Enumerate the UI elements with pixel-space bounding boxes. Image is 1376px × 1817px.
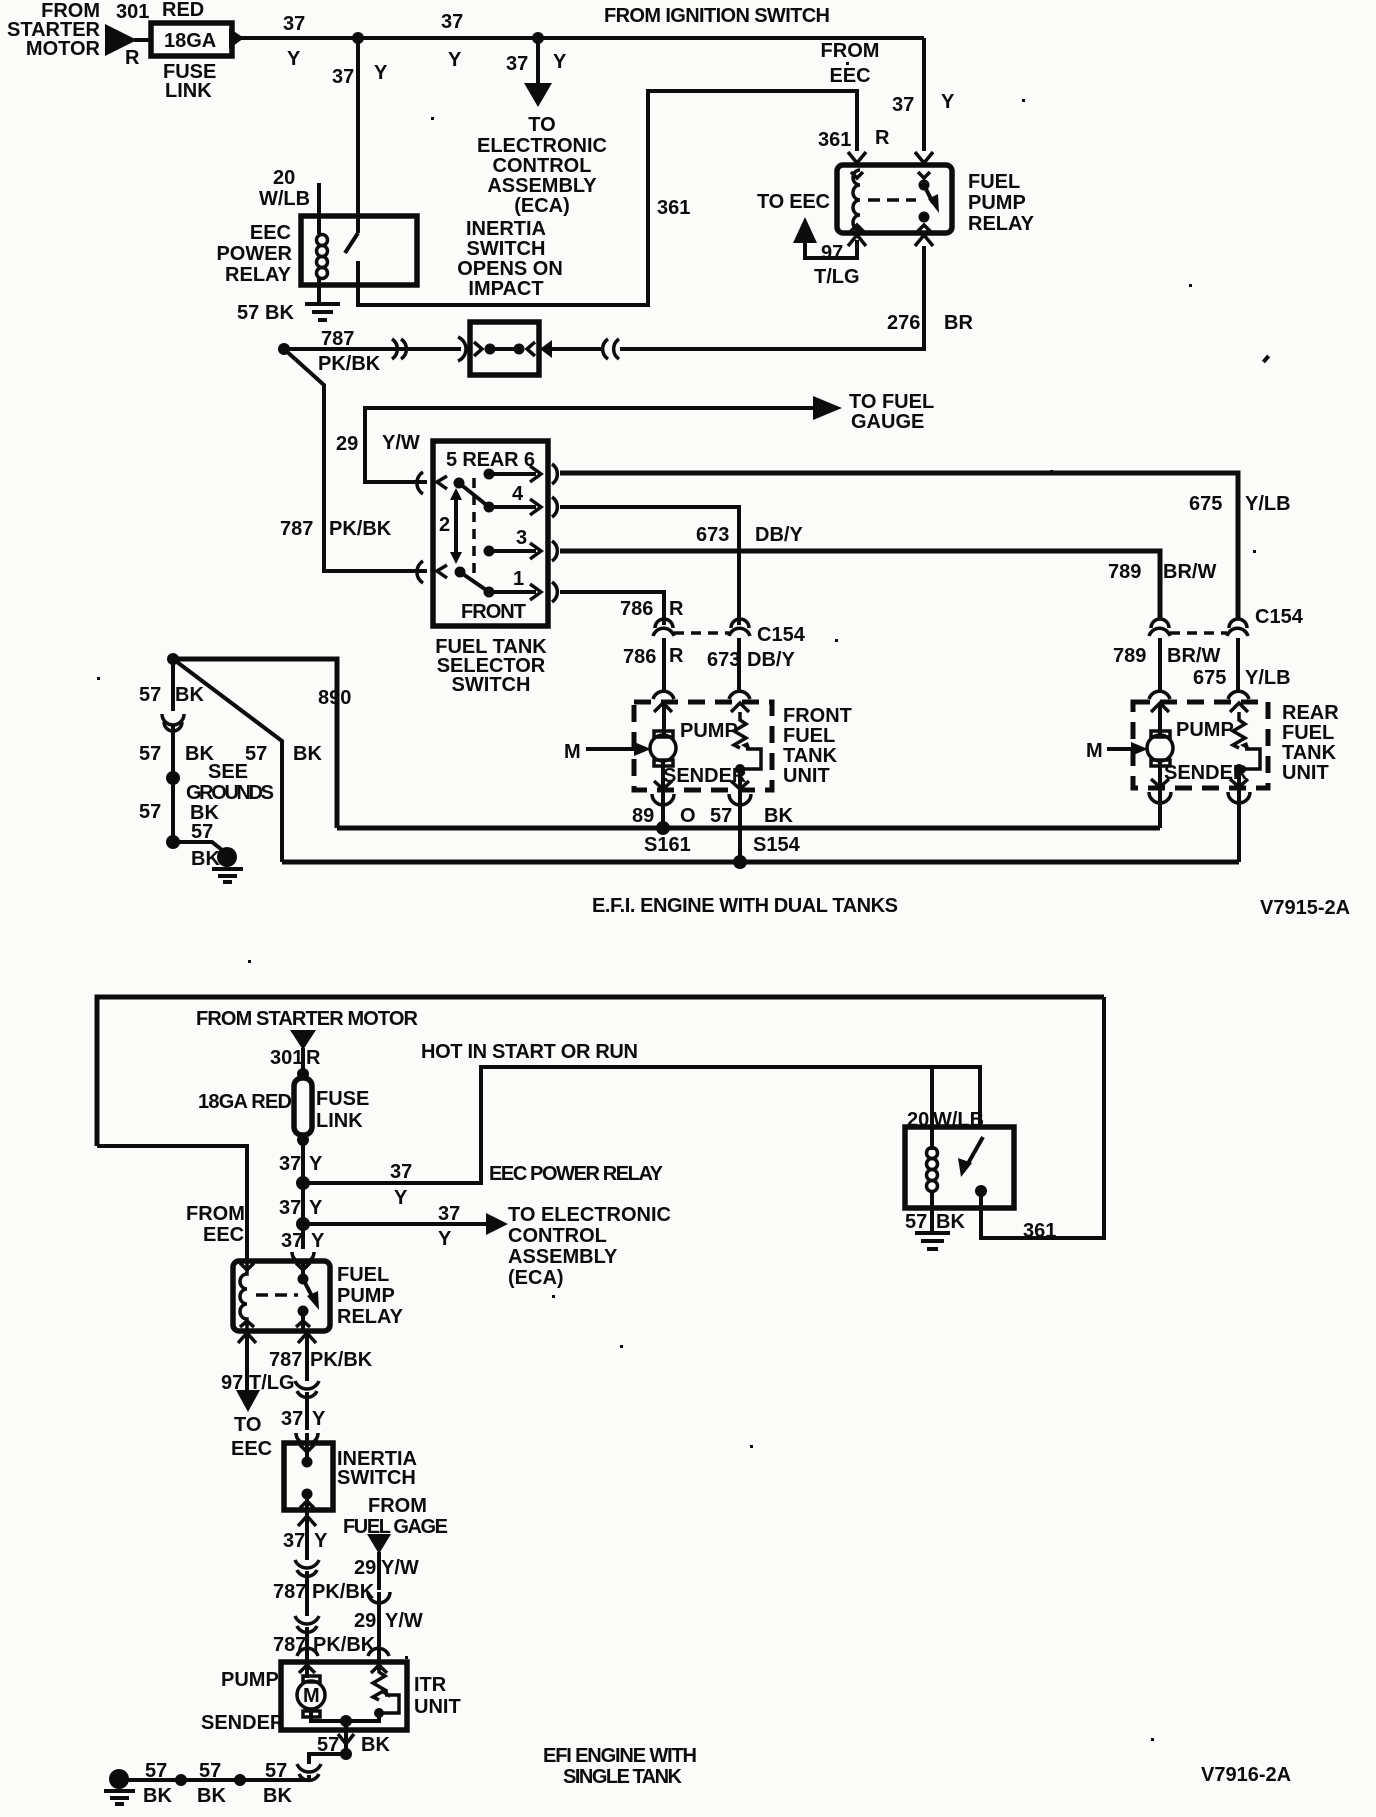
- chevron out of front tank box (sender): [731, 781, 749, 789]
- svg-text:18GA RED: 18GA RED: [198, 1091, 292, 1113]
- label FRONT FUEL TANK UNIT: [783, 705, 852, 787]
- single sender resistor ITR: [373, 1667, 385, 1700]
- wire unit to ground bus: [344, 1721, 348, 1754]
- S154 bus wire: [282, 860, 1239, 865]
- node internal: [340, 1715, 352, 1727]
- wire starter arrow to fuse: [301, 1048, 305, 1074]
- svg-text:R: R: [306, 1047, 321, 1069]
- wire fuse to junction chain: [301, 1140, 305, 1249]
- relay chevrons bottom: [240, 1321, 254, 1327]
- svg-text:PK/BK: PK/BK: [312, 1581, 375, 1603]
- wire connector to inertia connector box: [551, 347, 603, 351]
- svg-text:BK: BK: [175, 684, 204, 706]
- node dot chain bottom: [166, 835, 180, 849]
- connector arc above front pump pin: [653, 691, 674, 699]
- svg-text:301: 301: [116, 1, 149, 23]
- label FUEL TANK SELECTOR SWITCH: [435, 636, 547, 696]
- ground symbol bars: [212, 869, 243, 882]
- connector arc on 29 wire: [368, 1592, 390, 1603]
- wire 37 Y into inertia switch: [305, 1392, 309, 1430]
- node bus dot 2: [175, 1774, 187, 1786]
- svg-text:37: 37: [283, 1530, 305, 1552]
- rear sender resistor: [1233, 712, 1245, 748]
- wire 97 T/LG from relay to EEC arrow: [805, 240, 857, 258]
- connector (( female on 276 wire: [603, 339, 619, 359]
- svg-text:ELECTRONIC: ELECTRONIC: [477, 135, 607, 157]
- svg-text:57: 57: [145, 1760, 167, 1782]
- svg-text:BK: BK: [263, 1785, 292, 1807]
- wire 786 R lower: [662, 638, 666, 691]
- svg-text:FRONT: FRONT: [783, 705, 852, 727]
- svg-text:C154: C154: [757, 624, 806, 646]
- arrow to EEC (up): [793, 217, 817, 243]
- relay contacts (bottom): [301, 1262, 305, 1276]
- svg-text:R: R: [669, 645, 684, 667]
- svg-text:FUEL: FUEL: [783, 725, 835, 747]
- connector ( left of rear pivot: [417, 472, 423, 494]
- selector double arrow: [454, 497, 458, 555]
- svg-text:FROM IGNITION SWITCH: FROM IGNITION SWITCH: [604, 5, 830, 27]
- svg-text:BK: BK: [197, 1785, 226, 1807]
- svg-text:EEC: EEC: [203, 1224, 244, 1246]
- svg-text:57: 57: [191, 821, 213, 843]
- front sender resistor: [734, 712, 746, 748]
- svg-text:DB/Y: DB/Y: [747, 649, 795, 671]
- svg-text:18GA: 18GA: [164, 30, 216, 52]
- svg-text:97: 97: [821, 242, 843, 264]
- svg-text:LINK: LINK: [165, 80, 212, 102]
- arrowhead into inertia connector box right side: [540, 340, 552, 358]
- wire 675 Y/LB lower: [1236, 638, 1240, 691]
- label EEC POWER RELAY: [216, 222, 292, 286]
- connector arc below rear pump: [1149, 792, 1171, 803]
- wire stub to ground ball: [173, 842, 222, 850]
- svg-text:276: 276: [887, 312, 920, 334]
- svg-text:V7915-2A: V7915-2A: [1260, 897, 1350, 919]
- wire 787 PK/BK horizontal: [284, 347, 461, 351]
- svg-text:675: 675: [1189, 493, 1222, 515]
- svg-text:MOTOR: MOTOR: [26, 38, 101, 60]
- svg-text:(ECA): (ECA): [514, 195, 570, 217]
- svg-text:37: 37: [281, 1408, 303, 1430]
- wire 361 (bottom): [981, 997, 1104, 1238]
- connector C154 rear pump side: [1149, 619, 1170, 636]
- svg-text:BK: BK: [265, 302, 294, 324]
- svg-text:EEC: EEC: [250, 222, 291, 244]
- front sender wiper loop: [740, 749, 761, 769]
- connector )) male on 787 wire: [392, 339, 406, 359]
- wire from EEC into relay: [97, 1146, 247, 1262]
- svg-text:TO ELECTRONIC: TO ELECTRONIC: [508, 1204, 671, 1226]
- svg-text:T/LG: T/LG: [249, 1372, 295, 1394]
- fuel pump relay box K1 (bottom): [233, 1261, 330, 1331]
- label FROM EEC: [821, 40, 880, 87]
- C154 dashed link rear: [1170, 631, 1227, 635]
- svg-text:57: 57: [139, 684, 161, 706]
- fuel tank selector switch box S1: [433, 441, 548, 626]
- svg-text:PUMP: PUMP: [337, 1285, 395, 1307]
- ground ball (single tank): [109, 1769, 129, 1789]
- svg-text:PK/BK: PK/BK: [313, 1634, 376, 1656]
- svg-text:FUEL: FUEL: [337, 1264, 389, 1286]
- wire jog to connector: [309, 1754, 346, 1764]
- svg-text:BK: BK: [936, 1211, 965, 1233]
- wire rear sender to S154 bus: [1237, 769, 1241, 862]
- svg-text:CONTROL: CONTROL: [508, 1225, 607, 1247]
- node junction 787: [278, 343, 290, 355]
- svg-text:REAR: REAR: [1282, 702, 1339, 724]
- connector pair on 37/787: [295, 1560, 319, 1576]
- node junction at 358,38: [352, 32, 364, 44]
- chevron into rear tank box (pump): [1151, 703, 1169, 712]
- arrow to EEC (down): [236, 1390, 260, 1412]
- svg-text:RELAY: RELAY: [225, 264, 292, 286]
- connector arc above unit pump pin: [297, 1648, 318, 1656]
- wire 890 to S161 bus: [173, 659, 337, 828]
- svg-text:Y/W: Y/W: [381, 1557, 419, 1579]
- svg-text:UNIT: UNIT: [1282, 762, 1329, 784]
- node junction ECA branch: [296, 1217, 310, 1231]
- wire 29 Y/W from fuel gage: [377, 1552, 381, 1590]
- svg-text:Y: Y: [374, 62, 388, 84]
- svg-text:PUMP: PUMP: [1176, 719, 1234, 741]
- svg-text:361: 361: [818, 129, 851, 151]
- svg-text:DB/Y: DB/Y: [755, 524, 803, 546]
- inertia contacts: [302, 1457, 313, 1468]
- selector pin 4: [484, 502, 495, 513]
- connector chevron into relay pin 361: [848, 152, 866, 163]
- chevron into front tank box (sender): [731, 703, 749, 712]
- svg-text:RED: RED: [162, 0, 204, 21]
- svg-text:Y: Y: [448, 49, 462, 71]
- svg-text:FUEL: FUEL: [1282, 722, 1334, 744]
- svg-text:57: 57: [139, 743, 161, 765]
- inertia switch box (bottom): [284, 1443, 333, 1510]
- wire inertia out: [305, 1494, 309, 1528]
- svg-text:361: 361: [1023, 1220, 1056, 1242]
- front fuel tank unit box (dashed): [634, 702, 772, 790]
- svg-text:BK: BK: [764, 805, 793, 827]
- rear arm: [459, 483, 489, 507]
- svg-text:M: M: [303, 1685, 320, 1707]
- svg-text:SWITCH: SWITCH: [452, 674, 531, 696]
- ground chain wire 57 BK: [171, 659, 175, 711]
- EEC power relay switch arm: [345, 233, 358, 253]
- svg-text:V7916-2A: V7916-2A: [1201, 1764, 1291, 1786]
- selector rear arm pivot: [437, 476, 447, 489]
- svg-text:UNIT: UNIT: [414, 1696, 461, 1718]
- svg-text:37: 37: [283, 13, 305, 35]
- wire pin 1 to 786 R front pump: [560, 592, 664, 625]
- node bus dot 1: [234, 1774, 246, 1786]
- ground symbol (bottom relay): [915, 1233, 950, 1249]
- svg-text:890: 890: [318, 687, 351, 709]
- wire front pump to S161: [661, 762, 665, 828]
- inertia connector contacts: [474, 342, 482, 356]
- node junction at 538,38: [532, 32, 544, 44]
- label REAR FUEL TANK UNIT: [1282, 702, 1339, 784]
- wire front pump pin: [662, 703, 666, 734]
- connector chevron into relay pin 37: [915, 152, 933, 163]
- svg-text:LINK: LINK: [316, 1110, 363, 1132]
- svg-text:Y: Y: [438, 1228, 452, 1250]
- svg-text:37: 37: [279, 1197, 301, 1219]
- svg-text:BK: BK: [361, 1734, 390, 1756]
- chevron out of rear tank box (sender): [1230, 779, 1248, 787]
- svg-text:675: 675: [1193, 667, 1226, 689]
- svg-text:37: 37: [279, 1153, 301, 1175]
- inertia chevron bottom: [300, 1501, 314, 1508]
- svg-text:RELAY: RELAY: [968, 213, 1035, 235]
- wire EEC relay coil to ground (bottom): [930, 1191, 934, 1232]
- connector arc above rear pump pin: [1149, 691, 1170, 699]
- svg-text:TANK: TANK: [1282, 742, 1337, 764]
- bracket connector left of box: [458, 337, 466, 361]
- ground chain wire segment 2: [171, 726, 175, 778]
- wire 787 PK/BK segment: [305, 1571, 309, 1616]
- relay inner chevrons: [850, 225, 864, 232]
- chevron into unit (pump): [299, 1665, 315, 1673]
- arrow to ECA (right): [486, 1213, 508, 1235]
- single tank pump/sender unit box: [281, 1662, 407, 1730]
- svg-text:Y/LB: Y/LB: [1245, 667, 1291, 689]
- svg-text:786: 786: [623, 646, 656, 668]
- svg-text:EEC: EEC: [829, 65, 870, 87]
- svg-text:29: 29: [336, 433, 358, 455]
- relay coil (bottom): [240, 1262, 247, 1329]
- scan noise specks: [97, 62, 1270, 1741]
- svg-text:CONTROL: CONTROL: [493, 155, 592, 177]
- svg-text:EFI ENGINE WITH: EFI ENGINE WITH: [543, 1745, 697, 1767]
- chevron out of rear tank box (pump): [1151, 779, 1169, 787]
- arrow to electronic control assembly: [524, 83, 552, 107]
- wire down to 787 connector: [305, 1528, 309, 1560]
- svg-text:(ECA): (ECA): [508, 1267, 564, 1289]
- arrow from starter motor: [105, 24, 137, 56]
- wire pin 6 to 675 Y/LB rear sender: [560, 473, 1238, 620]
- svg-text:ASSEMBLY: ASSEMBLY: [487, 175, 597, 197]
- svg-text:PK/BK: PK/BK: [329, 518, 392, 540]
- connector arc above front sender pin: [729, 691, 750, 699]
- svg-text:5 REAR 6: 5 REAR 6: [446, 449, 535, 471]
- svg-text:57: 57: [245, 743, 267, 765]
- selector pin 3: [484, 546, 495, 557]
- ground ball: [217, 847, 237, 867]
- chevron into unit (sender): [371, 1665, 387, 1673]
- svg-text:Y: Y: [394, 1187, 408, 1209]
- node junction EEC power relay branch: [296, 1176, 310, 1190]
- wire 20 W/LB stub into EEC power relay coil: [317, 183, 321, 234]
- svg-text:786: 786: [620, 598, 653, 620]
- wire ground bus: [128, 1775, 309, 1780]
- svg-text:GAUGE: GAUGE: [851, 411, 924, 433]
- svg-text:TO: TO: [234, 1414, 261, 1436]
- svg-text:PK/BK: PK/BK: [310, 1349, 373, 1371]
- front pump motor M1: [654, 731, 673, 766]
- svg-text:Y: Y: [309, 1197, 323, 1219]
- fuel pump relay coil: [853, 170, 860, 230]
- svg-text:SEE: SEE: [208, 761, 248, 783]
- svg-text:T/LG: T/LG: [814, 266, 860, 288]
- rear sender dot: [1234, 764, 1244, 774]
- svg-text:37: 37: [438, 1203, 460, 1225]
- svg-text:Y/W: Y/W: [382, 432, 420, 454]
- relay chevrons top: [240, 1263, 254, 1270]
- svg-text:3: 3: [516, 527, 527, 549]
- node S161: [656, 821, 670, 835]
- svg-text:787: 787: [280, 518, 313, 540]
- S161 bus wire: [337, 826, 1160, 831]
- fuel pump relay box K1: [837, 165, 952, 233]
- svg-text:UNIT: UNIT: [783, 765, 830, 787]
- label INERTIA SWITCH OPENS ON IMPACT: [457, 218, 563, 300]
- wire 787 PK/BK into tank unit: [305, 1627, 309, 1678]
- svg-text:57: 57: [139, 801, 161, 823]
- node dot chain: [166, 771, 180, 785]
- svg-text:INERTIA: INERTIA: [466, 218, 546, 240]
- svg-text:E.F.I. ENGINE WITH DUAL TANKS: E.F.I. ENGINE WITH DUAL TANKS: [592, 895, 898, 917]
- svg-text:FROM STARTER MOTOR: FROM STARTER MOTOR: [196, 1008, 419, 1030]
- svg-text:Y/W: Y/W: [385, 1610, 423, 1632]
- svg-text:57: 57: [199, 1760, 221, 1782]
- svg-text:FUEL: FUEL: [968, 171, 1020, 193]
- svg-text:37: 37: [281, 1230, 303, 1252]
- wire starter to fuse link: [134, 38, 152, 42]
- svg-text:Y: Y: [287, 48, 301, 70]
- svg-text:BK: BK: [191, 848, 220, 870]
- svg-text:TO EEC: TO EEC: [757, 191, 830, 213]
- selector pin 6: [484, 469, 495, 480]
- svg-text:OPENS ON: OPENS ON: [457, 258, 563, 280]
- svg-text:PUMP: PUMP: [968, 192, 1026, 214]
- arrow to fuel gauge: [813, 396, 842, 420]
- svg-text:BK: BK: [293, 743, 322, 765]
- wire junction down to ECA arrow: [536, 38, 540, 86]
- EEC relay coil (bottom): [927, 1148, 938, 1192]
- svg-text:1: 1: [513, 568, 524, 590]
- selector pin 1: [484, 587, 495, 598]
- wire into inertia box: [305, 1433, 309, 1460]
- wire top loop (hot feed): [97, 997, 1104, 1146]
- svg-text:Y/LB: Y/LB: [1245, 493, 1291, 515]
- wire 20 W/LB stub (bottom EEC relay): [930, 1067, 934, 1150]
- single pump motor with M: [303, 1676, 320, 1717]
- wire rear pump to S161 bus: [1158, 762, 1162, 828]
- svg-text:TO FUEL: TO FUEL: [849, 391, 934, 413]
- fuse link output triangle: [229, 28, 244, 49]
- svg-text:4: 4: [512, 483, 524, 505]
- svg-text:Y: Y: [312, 1408, 326, 1430]
- rear fuel tank unit box (dashed): [1133, 702, 1268, 788]
- EEC power relay box U1: [301, 216, 417, 285]
- connector ( left of front pivot: [417, 561, 423, 583]
- connector arc below front sender: [729, 794, 751, 805]
- wire 29 Y/W to rear arm and fuel gauge: [365, 408, 816, 482]
- svg-text:SENDER: SENDER: [201, 1712, 285, 1734]
- wire pin 3 to 789 BR/W rear pump: [560, 551, 1160, 620]
- label TO ELECTRONIC CONTROL ASSEMBLY (ECA): [477, 114, 607, 217]
- label FROM STARTER MOTOR: [7, 0, 101, 60]
- connector arc below rear sender: [1228, 792, 1250, 803]
- wire rear pump pin: [1158, 703, 1162, 734]
- EEC relay contact dot (bottom): [975, 1185, 987, 1197]
- svg-text:FROM: FROM: [821, 40, 880, 62]
- svg-text:R: R: [875, 127, 890, 149]
- connector arc above relay pin 37: [292, 1252, 314, 1263]
- wire 97 T/LG to EEC arrow (down): [245, 1335, 249, 1392]
- chevron below unit: [338, 1734, 354, 1744]
- svg-text:20: 20: [273, 167, 295, 189]
- svg-text:BR/W: BR/W: [1163, 561, 1216, 583]
- relay dashed link (bottom): [256, 1293, 298, 1297]
- wire fuse link to ignition corner (main top horizontal): [238, 36, 924, 40]
- EEC power relay box (bottom): [905, 1127, 1014, 1208]
- chevron below relay right pin: [298, 1333, 316, 1343]
- selector dashed line: [472, 478, 476, 578]
- svg-text:57: 57: [905, 1211, 927, 1233]
- svg-text:57: 57: [710, 805, 732, 827]
- front arm: [460, 572, 489, 592]
- wire to ECA arrow: [303, 1222, 488, 1226]
- arrow from starter motor (down): [290, 1030, 316, 1050]
- wire pin 4 to 673 DB/Y front sender: [560, 507, 739, 625]
- rear pump motor M2: [1151, 731, 1170, 766]
- svg-text:M: M: [564, 741, 581, 763]
- svg-text:SWITCH: SWITCH: [467, 238, 546, 260]
- connector arc below front pump: [652, 794, 674, 805]
- svg-text:FUEL GAGE: FUEL GAGE: [343, 1516, 448, 1538]
- wire EEC power relay branch: [303, 1067, 980, 1183]
- wire 787 PK/BK relay to inertia switch: [305, 1335, 309, 1381]
- node above fuse link: [297, 1068, 309, 1080]
- svg-text:PUMP: PUMP: [221, 1669, 279, 1691]
- svg-text:2: 2: [439, 514, 450, 536]
- EEC power relay coil (4 loops): [317, 235, 328, 279]
- svg-text:FUSE: FUSE: [316, 1088, 369, 1110]
- svg-text:W/LB: W/LB: [259, 188, 310, 210]
- ground bars (single tank): [104, 1791, 135, 1804]
- label FUEL PUMP RELAY (bottom): [337, 1264, 404, 1328]
- connector arc above unit sender pin: [368, 1648, 389, 1656]
- chevron into rear tank box (sender): [1230, 703, 1248, 712]
- svg-text:Y: Y: [309, 1153, 323, 1175]
- svg-text:HOT IN START OR RUN: HOT IN START OR RUN: [421, 1041, 638, 1063]
- svg-text:POWER: POWER: [216, 243, 292, 265]
- label TO ELECTRONIC CONTROL ASSEMBLY (ECA) bottom: [508, 1204, 671, 1289]
- wire front sender to S154: [738, 769, 742, 862]
- svg-text:GROUNDS: GROUNDS: [186, 782, 274, 804]
- svg-text:37: 37: [441, 11, 463, 33]
- fuel pump relay contact dots and arm: [919, 180, 930, 191]
- svg-text:787: 787: [269, 1349, 302, 1371]
- svg-text:789: 789: [1108, 561, 1141, 583]
- connector C154 rear sender side: [1227, 619, 1248, 636]
- connector pair on ground lead: [297, 1764, 321, 1780]
- svg-text:TO: TO: [528, 114, 555, 136]
- fuse link box 18GA: [151, 23, 232, 56]
- svg-text:Y: Y: [941, 91, 955, 113]
- svg-text:R: R: [669, 598, 684, 620]
- svg-text:673: 673: [696, 524, 729, 546]
- wire EEC relay coil to ground: [317, 278, 321, 303]
- C154 dashed link front: [674, 631, 729, 635]
- label FUEL PUMP RELAY: [968, 171, 1035, 235]
- svg-text:PUMP: PUMP: [680, 720, 738, 742]
- inertia switch connector box: [470, 322, 539, 375]
- svg-text:29: 29: [354, 1610, 376, 1632]
- svg-text:29: 29: [354, 1557, 376, 1579]
- svg-text:SINGLE TANK: SINGLE TANK: [563, 1766, 683, 1788]
